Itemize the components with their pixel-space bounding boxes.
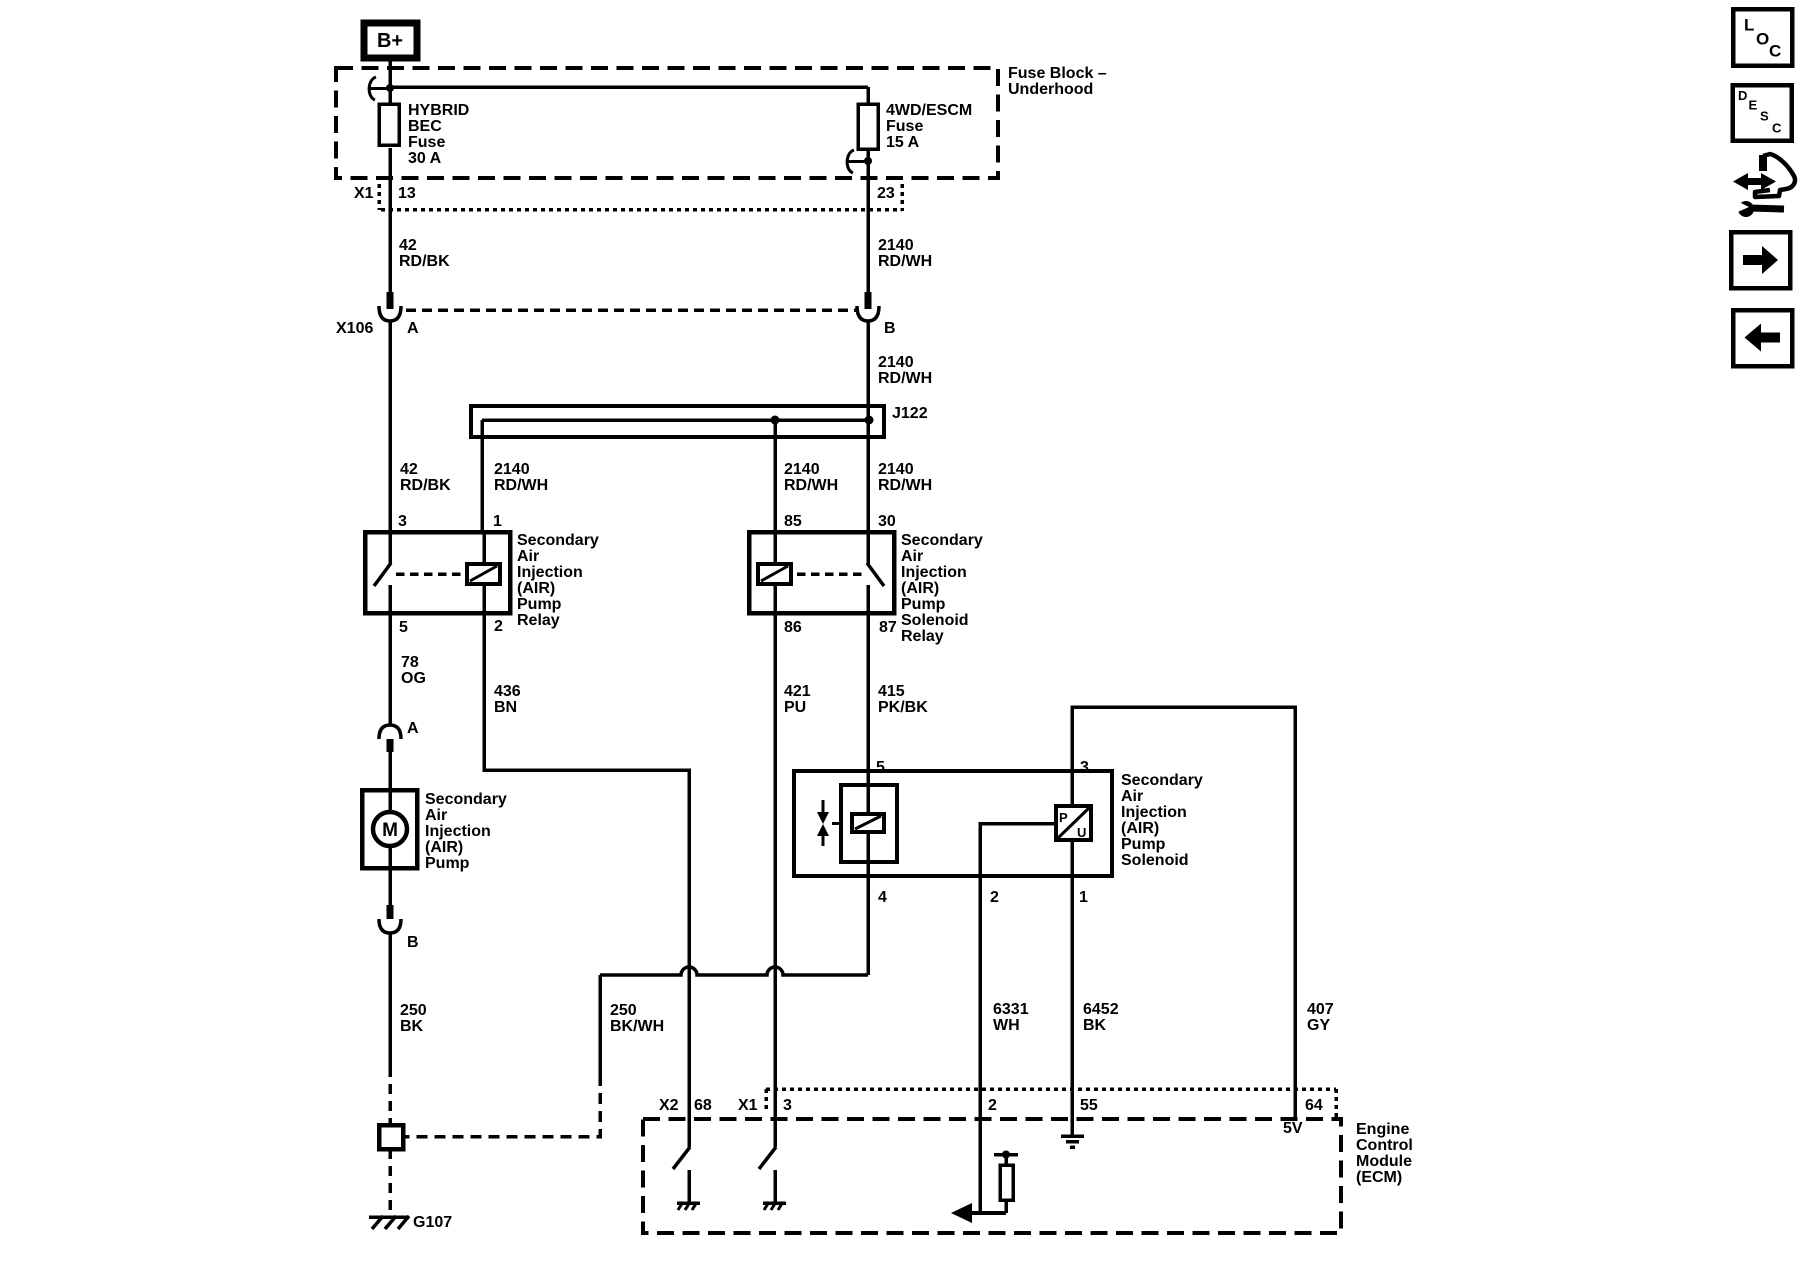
svg-text:Fuse Block –Underhood: Fuse Block –Underhood: [1008, 65, 1107, 98]
svg-text:68: 68: [694, 1097, 712, 1114]
valve arrows: [817, 800, 841, 846]
svg-text:X1: X1: [354, 185, 374, 202]
svg-text:B: B: [884, 320, 896, 337]
ground G107: [369, 1214, 452, 1231]
wire branch to 4WD fuse: [390, 85, 868, 89]
solenoid inner frame: [841, 785, 897, 862]
svg-text:A: A: [407, 320, 419, 337]
AIR pump motor M: [362, 790, 417, 868]
svg-text:250BK: 250BK: [400, 1002, 427, 1035]
wire 436 BN relay pin2 path: [484, 613, 689, 1147]
svg-text:86: 86: [784, 619, 802, 636]
connector X106 pin B: [857, 292, 896, 337]
fuse block underhood dashed box: [336, 68, 998, 178]
svg-text:30: 30: [878, 513, 896, 530]
fuse HYBRID BEC 30A: [379, 102, 469, 293]
dashed 250 BK/WH to splice: [403, 1075, 600, 1137]
AIR pump solenoid relay box: [749, 532, 894, 613]
P/U transducer: [1056, 806, 1091, 840]
relay internal dashed link: [396, 572, 465, 576]
svg-text:C: C: [1772, 121, 1782, 136]
svg-text:M: M: [382, 820, 398, 841]
svg-text:5V: 5V: [1283, 1120, 1303, 1137]
svg-text:5: 5: [876, 759, 885, 776]
svg-text:G107: G107: [413, 1214, 452, 1231]
wire 250 BK: [388, 933, 392, 1067]
svg-text:X2: X2: [659, 1097, 679, 1114]
connector row X1 13 23: [354, 184, 902, 211]
solenoid relay switch: [867, 532, 884, 613]
junction node below right fuse: [864, 157, 872, 165]
solenoid coil: [852, 771, 884, 876]
svg-text:13: 13: [398, 185, 416, 202]
svg-text:A: A: [407, 720, 419, 737]
ECM dashed box: [643, 1119, 1341, 1233]
wire 415 PK/BK relay pin87 to valve pin5: [866, 613, 870, 771]
wire A to motor: [388, 752, 392, 790]
svg-text:X106: X106: [336, 320, 373, 337]
svg-text:4: 4: [878, 889, 887, 906]
wire motor to connector B: [388, 868, 392, 905]
AIR pump relay box: [365, 532, 510, 613]
AIR pump solenoid box: [794, 771, 1112, 876]
wire 6331 WH valve pin2: [980, 824, 1056, 1214]
svg-text:2: 2: [494, 618, 503, 635]
fuse 4WD/ESCM 15A: [858, 87, 972, 293]
svg-text:C: C: [1769, 42, 1781, 61]
terminal hook left fuse: [369, 77, 388, 100]
icon forward arrow box: [1731, 232, 1790, 288]
ECM switch pin 3: [759, 1147, 776, 1202]
wire J122 to relay pin 85: [773, 420, 777, 532]
ECM switch pin 68: [673, 1147, 690, 1202]
svg-text:L: L: [1744, 16, 1754, 35]
svg-text:E: E: [1749, 98, 1758, 113]
wire 407 GY valve pin3 to ECM 64: [1072, 707, 1295, 1117]
pump connector pin A: [379, 720, 419, 752]
svg-text:2: 2: [988, 1097, 997, 1114]
svg-text:S: S: [1760, 109, 1769, 124]
svg-text:U: U: [1077, 825, 1086, 840]
rake ground pin 3: [763, 1202, 786, 1210]
svg-text:D: D: [1738, 88, 1747, 103]
svg-text:407GY: 407GY: [1307, 1001, 1334, 1034]
svg-text:3: 3: [783, 1097, 792, 1114]
svg-text:64: 64: [1305, 1097, 1323, 1114]
icon wiring tool: [1731, 154, 1795, 217]
junction node at B+ branch: [386, 84, 394, 92]
ECM connector dotted row: [766, 1089, 1336, 1119]
svg-text:B: B: [407, 934, 419, 951]
rake ground pin 68: [677, 1202, 700, 1210]
dashed wire to splice: [388, 1067, 392, 1125]
ECM signal arrow pin 2: [951, 1203, 1006, 1223]
ECM pullup resistor: [994, 1151, 1018, 1214]
wire B down to J122: [866, 321, 870, 420]
wire 6452 BK valve pin1: [1070, 840, 1074, 1135]
solenoid relay coil: [758, 532, 791, 613]
svg-text:85: 85: [784, 513, 802, 530]
wire 250 BK/WH vertical: [598, 975, 602, 1075]
svg-text:436BN: 436BN: [494, 683, 521, 716]
pump connector pin B: [379, 905, 419, 951]
wire 250 BK/WH horizontal with hops: [600, 967, 868, 975]
connector X106 pin A: [336, 292, 419, 337]
svg-text:P: P: [1059, 810, 1068, 825]
wire J122 to relay pin 1: [480, 420, 484, 532]
wire A down to relay pin 3: [388, 321, 392, 532]
svg-text:O: O: [1756, 30, 1769, 49]
svg-text:2: 2: [990, 889, 999, 906]
svg-text:3: 3: [398, 513, 407, 530]
svg-text:1: 1: [1079, 889, 1088, 906]
svg-text:X1: X1: [738, 1097, 758, 1114]
terminal hook right fuse: [847, 150, 866, 173]
AIR pump relay coil: [467, 532, 500, 613]
wire B+ to fuse: [388, 59, 392, 104]
splice block square: [379, 1125, 403, 1149]
wire J122 to relay pin 30: [866, 420, 870, 532]
svg-text:87: 87: [879, 619, 897, 636]
dashed wire splice to ground: [388, 1149, 392, 1214]
svg-text:5: 5: [399, 619, 408, 636]
ECM pin labels: [659, 1097, 1323, 1114]
ECM ground pin 55: [1061, 1089, 1084, 1147]
svg-text:23: 23: [877, 185, 895, 202]
battery terminal B+: [364, 23, 417, 58]
svg-text:55: 55: [1080, 1097, 1098, 1114]
svg-text:3: 3: [1080, 759, 1089, 776]
icon back arrow box: [1733, 310, 1792, 366]
splice pack J122: [471, 405, 928, 437]
AIR pump relay switch: [374, 532, 391, 613]
svg-text:B+: B+: [377, 30, 403, 52]
wire 421 PU relay pin86 to ECM: [773, 613, 777, 1147]
icon LOC box: [1733, 9, 1792, 66]
wire 78 OG relay pin5 to connector A: [388, 613, 392, 725]
svg-text:J122: J122: [892, 405, 928, 422]
icon DESC box: [1733, 85, 1792, 141]
svg-text:1: 1: [493, 513, 502, 530]
solenoid relay internal dashed link: [797, 572, 862, 576]
wire valve pin4 down: [866, 876, 870, 975]
harness dashed line X106: [406, 308, 856, 312]
